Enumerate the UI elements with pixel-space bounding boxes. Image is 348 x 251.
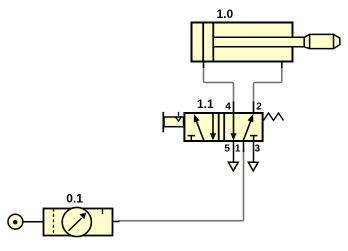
svg-text:1: 1 bbox=[235, 143, 241, 154]
exhaust triangle port 3 bbox=[248, 162, 258, 171]
rod end grip bbox=[304, 34, 340, 48]
cylinder port stub right bbox=[281, 62, 283, 69]
regulator relief tick bbox=[102, 208, 104, 214]
valve port stub 1 bbox=[243, 142, 245, 152]
valve port stub 5 bbox=[233, 142, 235, 162]
valve 1.1 body bbox=[184, 113, 262, 141]
cylinder piston bbox=[202, 23, 204, 62]
svg-text:1.1: 1.1 bbox=[197, 97, 214, 111]
svg-text:4: 4 bbox=[225, 102, 231, 113]
detent V bbox=[175, 116, 181, 121]
compressed air source bbox=[8, 214, 23, 229]
regulator 0.1 body bbox=[44, 209, 113, 236]
lever bar bbox=[162, 112, 164, 133]
valve divider left bbox=[218, 112, 220, 142]
gauge circle bbox=[62, 207, 91, 236]
left square: blocked port 5 (T) bbox=[188, 135, 196, 137]
wire source to regulator bbox=[23, 221, 44, 223]
wire cylinder right port to valve port 2 bbox=[254, 64, 282, 103]
right square: arrow 1 to 2 bbox=[244, 121, 251, 141]
cylinder port stub left bbox=[203, 62, 205, 69]
right square: blocked port 3 (T) bbox=[250, 135, 258, 137]
svg-text:0.1: 0.1 bbox=[66, 191, 83, 205]
right square: arrow 4 to 5 bbox=[233, 114, 235, 135]
valve port stub 3 bbox=[253, 142, 255, 162]
wire cylinder left port to valve port 4 bbox=[204, 64, 234, 103]
valve port stub 2 bbox=[253, 102, 255, 113]
wire valve port 1 to regulator output bbox=[118, 150, 244, 221]
valve divider right bbox=[223, 112, 225, 142]
valve port stub 4 bbox=[233, 102, 235, 113]
source dot bbox=[13, 220, 17, 224]
exhaust triangle port 5 bbox=[228, 162, 238, 171]
left square: arrow 2 to 3 bbox=[212, 114, 214, 135]
detent tick bbox=[178, 112, 180, 116]
return spring bbox=[264, 113, 284, 121]
gauge needle bbox=[69, 218, 82, 231]
svg-text:3: 3 bbox=[255, 143, 261, 154]
svg-text:1.0: 1.0 bbox=[216, 7, 233, 21]
cylinder 1.0 body bbox=[192, 23, 293, 62]
regulator dashed line bbox=[53, 209, 55, 236]
svg-text:2: 2 bbox=[256, 102, 262, 113]
regulator output stub bbox=[113, 221, 120, 223]
left square: arrow 1 to 4 bbox=[196, 121, 203, 141]
cylinder piston rod bbox=[214, 38, 305, 46]
svg-text:5: 5 bbox=[224, 143, 230, 154]
manual lever actuator box bbox=[164, 117, 184, 127]
